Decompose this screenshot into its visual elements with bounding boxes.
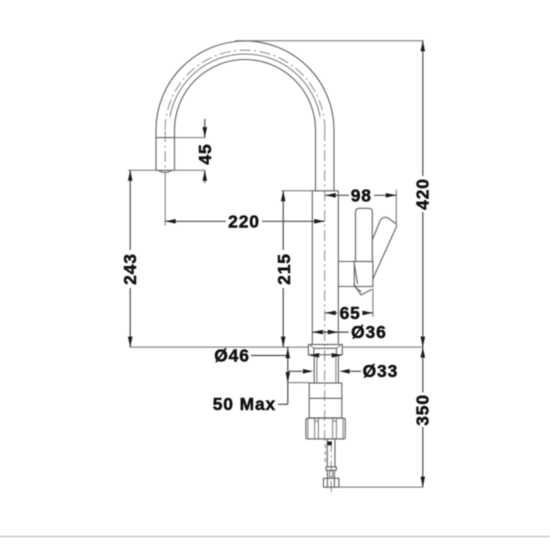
svg-text:Ø33: Ø33	[363, 361, 399, 381]
svg-text:243: 243	[120, 253, 140, 285]
svg-text:98: 98	[351, 185, 372, 205]
svg-text:65: 65	[340, 303, 361, 323]
svg-text:45: 45	[195, 143, 215, 164]
svg-text:50 Max: 50 Max	[213, 394, 276, 414]
svg-text:420: 420	[413, 178, 433, 210]
svg-text:220: 220	[228, 211, 260, 231]
svg-text:215: 215	[274, 253, 294, 285]
svg-text:Ø46: Ø46	[214, 346, 250, 366]
svg-text:350: 350	[413, 394, 433, 426]
svg-text:Ø36: Ø36	[351, 322, 387, 342]
